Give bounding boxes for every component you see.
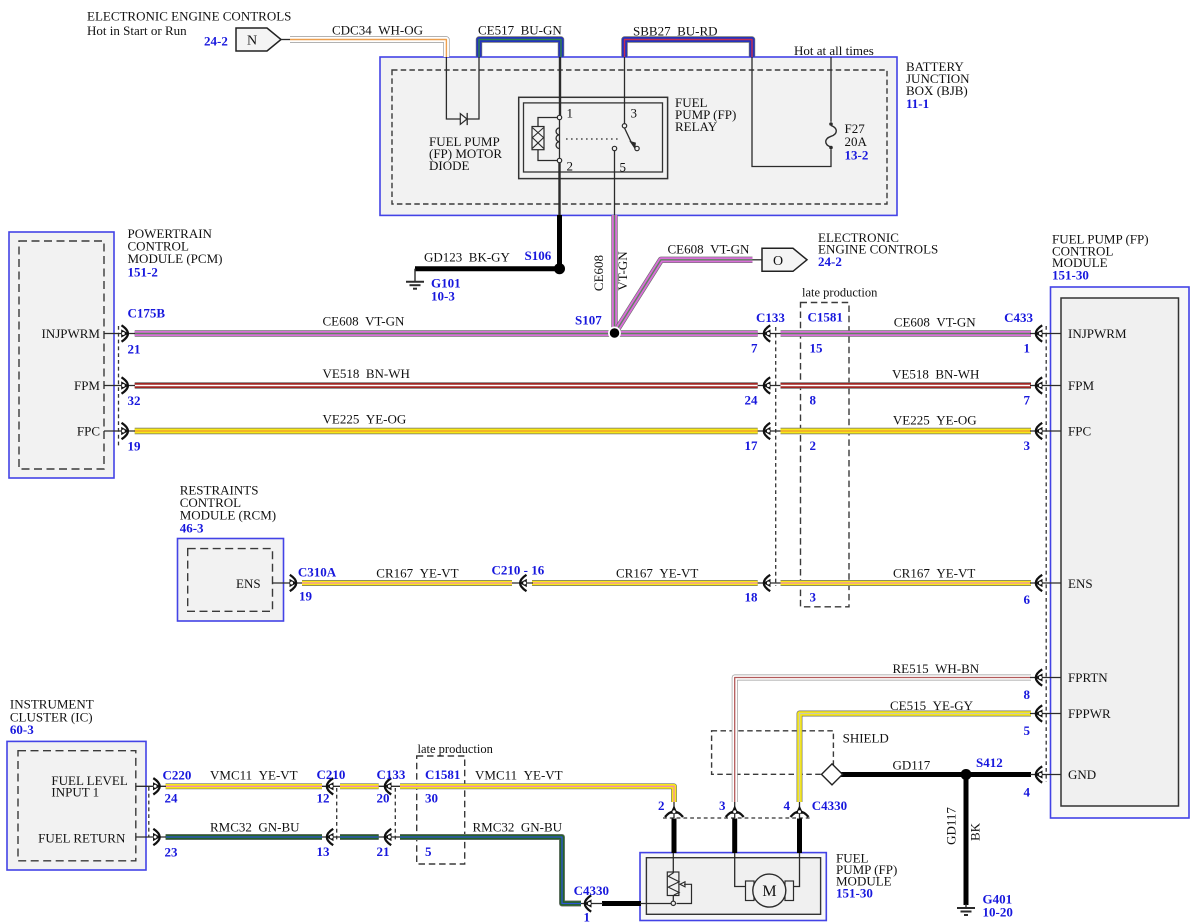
svg-text:O: O [773, 254, 783, 269]
C4330 pin 2 stub [673, 802, 675, 818]
fuel pump control module outline [1051, 287, 1190, 818]
fuse F27 element [826, 122, 837, 149]
IC inner dashed border [18, 751, 136, 861]
C133 stub VE518 [758, 385, 781, 387]
svg-text:CE608 VT-GN: CE608 VT-GN [323, 314, 405, 329]
svg-text:FPC: FPC [77, 424, 100, 439]
instrument cluster (IC) outline [7, 741, 146, 870]
sender bottom lead to terminal [672, 896, 674, 902]
C210 lower stub VMC11 [322, 785, 340, 787]
C4330 pin 3 arrow [726, 805, 744, 817]
wire relay pin 2 down to BJB bottom [558, 163, 560, 215]
svg-text:19: 19 [299, 589, 313, 604]
svg-text:24-2: 24-2 [818, 254, 842, 269]
svg-text:N: N [247, 34, 257, 49]
svg-text:RMC32 GN-BU: RMC32 GN-BU [210, 820, 300, 835]
svg-text:5: 5 [425, 844, 432, 859]
svg-text:C4330: C4330 [812, 798, 847, 813]
wire GD117 BK from splice S412 to ground G401 [964, 775, 969, 906]
wire into sender terminal [640, 903, 671, 905]
svg-text:DIODE: DIODE [429, 158, 469, 173]
C433 pin 6 arrow [1035, 575, 1043, 591]
svg-text:INJPWRM: INJPWRM [41, 326, 100, 341]
C433 stub FPM [1030, 385, 1061, 387]
svg-text:VT-GN: VT-GN [615, 251, 630, 291]
connector C220 dashed line [148, 787, 150, 837]
RCM inner dashed border [188, 549, 273, 612]
svg-text:C310A: C310A [298, 565, 337, 580]
svg-text:1: 1 [1024, 341, 1031, 356]
battery junction box (BJB) outline [380, 57, 897, 215]
C433 stub FPC [1030, 430, 1061, 432]
late production connector C1581 dashed box (lower) [417, 756, 465, 864]
C133 pin 20 arrow [384, 778, 392, 794]
C4330 pin 3 stub [734, 802, 736, 818]
svg-text:3: 3 [719, 798, 726, 813]
motor lead from C4330 pin 3 [735, 853, 746, 887]
IC pin 24 arrow [153, 778, 161, 794]
svg-text:13-2: 13-2 [845, 148, 869, 163]
svg-text:46-3: 46-3 [180, 521, 204, 536]
wire CDC34 into diode anode [446, 57, 460, 119]
wire CR167 YE-VT from RCM to C210 [302, 580, 512, 586]
splice S107 [609, 327, 620, 338]
svg-text:ELECTRONIC ENGINE CONTROLS: ELECTRONIC ENGINE CONTROLS [87, 9, 291, 24]
connector C133 dashed line (lower) [394, 788, 396, 840]
svg-text:VE518 BN-WH: VE518 BN-WH [892, 367, 979, 382]
wire C4330 pin 4 into fuel pump module [797, 819, 802, 854]
svg-text:30: 30 [425, 791, 438, 806]
svg-text:Hot at all times: Hot at all times [794, 43, 874, 58]
fuel level sender (variable resistor) [667, 872, 679, 896]
C433 stub ENS [1030, 582, 1061, 584]
electronic engine controls connector N [236, 28, 281, 51]
svg-text:Hot in Start or Run: Hot in Start or Run [87, 23, 187, 38]
PCM pin 19 arrow [121, 423, 129, 439]
C210-16 stub [512, 582, 533, 584]
wire fuse feed from hot at all times [830, 57, 832, 122]
wire CE515 YE-GY from fuel pump module to FPCM [800, 714, 1032, 803]
electronic engine controls connector O [762, 248, 807, 271]
wire CE608 VT-GN from splice S107 to EEC connector [615, 260, 753, 334]
wire GD117 BK from shield to splice S412 and FPCM GND [841, 772, 1031, 777]
splice S412 [961, 769, 972, 780]
svg-text:FPRTN: FPRTN [1068, 670, 1108, 685]
svg-text:24: 24 [165, 791, 179, 806]
C433 pin 8 arrow [1035, 669, 1043, 685]
RCM pin 19 arrow [290, 575, 298, 591]
C433 stub FPPWR [1030, 713, 1061, 715]
BJB inner dashed border [392, 70, 887, 204]
svg-text:M: M [762, 883, 776, 900]
svg-text:2: 2 [658, 798, 665, 813]
svg-text:CR167 YE-VT: CR167 YE-VT [893, 566, 975, 581]
svg-text:CE517 BU-GN: CE517 BU-GN [478, 23, 562, 38]
relay switch pin 5 contact [612, 146, 616, 150]
svg-text:C210 - 16: C210 - 16 [492, 563, 545, 578]
RCM ENS pin stub [273, 582, 303, 584]
C133 stub CE608 [758, 333, 781, 335]
connector C210 dashed line (lower) [336, 788, 338, 840]
svg-text:17: 17 [745, 438, 759, 453]
wire RMC32 GN-BU from IC to C210 [166, 834, 322, 840]
connector C4330 dashed line [663, 817, 810, 819]
late production connector C1581 dashed box (upper) [801, 303, 850, 607]
svg-text:VMC11 YE-VT: VMC11 YE-VT [475, 768, 563, 783]
wire CE517 BU-GN [479, 40, 561, 58]
wire SBB27 BU-RD [625, 40, 753, 58]
C433 stub FPRTN [1030, 677, 1061, 679]
sender terminal circle [671, 901, 675, 905]
C133 lower stub RMC32 [379, 836, 400, 838]
svg-text:151-2: 151-2 [128, 265, 158, 280]
svg-text:CE608: CE608 [591, 255, 606, 291]
wire VE225 YE-OG from C133 to C433 [781, 428, 1032, 434]
C433 stub GND [1030, 774, 1061, 776]
relay coil feed from pin 1 to resistor branch [538, 118, 558, 127]
relay actuation dotted line [566, 138, 619, 140]
connector C175B dashed line [118, 326, 120, 446]
svg-text:C1581: C1581 [808, 310, 843, 325]
connector C433 dashed line [1045, 326, 1047, 782]
svg-text:BK: BK [968, 822, 983, 841]
svg-text:C175B: C175B [128, 306, 166, 321]
svg-text:5: 5 [620, 160, 627, 175]
C4330 pin 4 stub [799, 802, 801, 818]
svg-text:CE608 VT-GN: CE608 VT-GN [894, 315, 976, 330]
svg-text:5: 5 [1024, 723, 1031, 738]
svg-text:21: 21 [128, 342, 141, 357]
C210-16 arrow [519, 575, 527, 591]
svg-text:32: 32 [128, 393, 141, 408]
C433 pin 4 arrow [1035, 766, 1043, 782]
wire C4330 pin 3 into fuel pump module [732, 819, 737, 854]
svg-text:12: 12 [317, 791, 330, 806]
splice S106 [554, 263, 565, 274]
svg-text:CR167 YE-VT: CR167 YE-VT [616, 566, 698, 581]
svg-text:18: 18 [745, 590, 759, 605]
wire VE518 BN-WH from C133 to C433 [781, 382, 1032, 388]
relay coil [556, 115, 562, 162]
PCM FPM pin stub [104, 385, 135, 387]
fuel pump relay box inner border [524, 103, 663, 172]
wire CR167 YE-VT from C133 to C433 [781, 580, 1032, 586]
svg-text:10-20: 10-20 [983, 905, 1013, 920]
wire diode cathode up to CE517 [467, 57, 479, 119]
wire RE515 WH-BN from fuel pump module to FPCM [735, 678, 1031, 803]
C210 pin 13 arrow [326, 829, 334, 845]
svg-text:C133: C133 [756, 310, 785, 325]
svg-text:ENS: ENS [236, 576, 261, 591]
svg-text:RMC32 GN-BU: RMC32 GN-BU [473, 820, 563, 835]
relay coil suppression resistor [532, 127, 544, 150]
PCM pin 32 arrow [121, 377, 129, 393]
wire SBB27 down to relay pin 3 [624, 57, 626, 124]
svg-text:S412: S412 [976, 755, 1003, 770]
svg-text:6: 6 [1024, 592, 1031, 607]
svg-text:13: 13 [317, 844, 331, 859]
svg-text:15: 15 [810, 341, 824, 356]
svg-text:C133: C133 [377, 767, 406, 782]
fuel pump module inner body [646, 858, 820, 915]
IC pin 23 arrow [153, 829, 161, 845]
wire relay pin 5 down inside BJB [614, 151, 616, 215]
C4330 pin 4 arrow [791, 805, 809, 817]
relay switch pin 3 contact [622, 124, 626, 128]
C133 pin 18 arrow [763, 575, 771, 591]
shield dashed box [712, 731, 834, 775]
wire VE518 BN-WH from PCM to C133 [135, 382, 758, 388]
svg-text:CE515 YE-GY: CE515 YE-GY [890, 698, 974, 713]
svg-text:S106: S106 [525, 248, 552, 263]
C433 pin 1 arrow [1035, 325, 1043, 341]
svg-text:11-1: 11-1 [906, 96, 929, 111]
wire RMC32 GN-BU from C210 to C133 [340, 834, 379, 840]
wire relay pin 1 from box top [559, 57, 561, 115]
svg-text:3: 3 [1024, 438, 1031, 453]
wire fuse output to SBB27 leg [752, 57, 831, 167]
svg-text:8: 8 [1024, 687, 1031, 702]
svg-text:3: 3 [631, 106, 638, 121]
svg-text:SHIELD: SHIELD [843, 731, 889, 746]
svg-text:FPC: FPC [1068, 424, 1091, 439]
svg-text:C433: C433 [1004, 310, 1033, 325]
IC fuel return pin stub [136, 836, 166, 838]
wire relay pin 2 to splice S106 [557, 215, 562, 269]
svg-text:20: 20 [377, 791, 390, 806]
svg-text:3: 3 [810, 590, 817, 605]
svg-text:VE225 YE-OG: VE225 YE-OG [893, 413, 977, 428]
svg-text:4: 4 [784, 798, 791, 813]
svg-text:GD117: GD117 [893, 758, 931, 773]
svg-text:VE518 BN-WH: VE518 BN-WH [323, 366, 410, 381]
wire CE608 VT-GN from PCM to C133 [135, 330, 758, 336]
C433 pin 7 arrow [1035, 377, 1043, 393]
connector C133 dashed line (upper) [775, 327, 777, 586]
motor lead from C4330 pin 4 [794, 853, 800, 887]
wire RMC32 GN-BU from C133 down to C4330 pin 1 [400, 837, 581, 904]
wire C4330 pin 1 into fuel pump module [602, 901, 641, 906]
relay switch arm [625, 128, 640, 151]
svg-text:8: 8 [810, 393, 817, 408]
C433 pin 5 arrow [1035, 705, 1043, 721]
wire VE225 YE-OG from PCM to C133 [135, 428, 758, 434]
C133 pin 17 arrow [763, 423, 771, 439]
svg-text:151-30: 151-30 [836, 886, 873, 901]
ground G401 [957, 904, 975, 915]
EEC O connector tail [753, 259, 764, 261]
svg-text:2: 2 [567, 159, 574, 174]
svg-text:FPM: FPM [1068, 378, 1094, 393]
svg-text:2: 2 [810, 438, 817, 453]
powertrain control module (PCM) outline [9, 232, 114, 478]
svg-text:CE608 VT-GN: CE608 VT-GN [668, 242, 750, 257]
svg-text:60-3: 60-3 [10, 722, 34, 737]
fuel pump motor brushes [746, 881, 794, 901]
svg-text:late production: late production [418, 742, 494, 756]
PCM pin 21 arrow [121, 325, 129, 341]
svg-text:INPUT 1: INPUT 1 [51, 785, 99, 800]
fuel pump module outline [640, 853, 826, 921]
svg-text:FPPWR: FPPWR [1068, 706, 1111, 721]
shield drain diamond connector [822, 764, 843, 785]
svg-text:INJPWRM: INJPWRM [1068, 326, 1127, 341]
svg-text:C1581: C1581 [425, 767, 460, 782]
svg-text:RELAY: RELAY [675, 119, 718, 134]
wire C4330 pin 2 into fuel pump module [672, 819, 677, 854]
ground G101 [406, 269, 424, 289]
svg-text:GD117: GD117 [944, 807, 959, 845]
svg-text:FPM: FPM [74, 378, 100, 393]
PCM INJPWRM pin stub [104, 333, 135, 335]
PCM FPC pin stub [104, 430, 135, 432]
C133 pin 21 arrow [384, 829, 392, 845]
svg-text:24: 24 [745, 393, 759, 408]
C133 pin 7 arrow [763, 325, 771, 341]
C433 pin 3 arrow [1035, 423, 1043, 439]
svg-text:4: 4 [1024, 785, 1031, 800]
svg-text:23: 23 [165, 845, 179, 860]
svg-text:1: 1 [567, 106, 574, 121]
svg-text:late production: late production [802, 286, 878, 300]
C4330 pin 1 arrow [584, 895, 592, 911]
svg-text:SBB27 BU-RD: SBB27 BU-RD [633, 24, 718, 39]
svg-text:CDC34 WH-OG: CDC34 WH-OG [332, 23, 423, 38]
N connector tail [281, 39, 290, 41]
svg-text:10-3: 10-3 [431, 289, 455, 304]
svg-text:24-2: 24-2 [204, 34, 228, 49]
C4330 pin 2 arrow [665, 805, 683, 817]
fuel level sender wiper arm [677, 882, 692, 904]
svg-text:RE515 WH-BN: RE515 WH-BN [893, 661, 980, 676]
wire CDC34 WH-OG [290, 40, 446, 58]
C210 pin 12 arrow [326, 778, 334, 794]
C133 pin 24 arrow [763, 377, 771, 393]
svg-text:S107: S107 [575, 313, 602, 328]
fuel pump control module inner body [1061, 298, 1179, 806]
wire VMC11 YE-VT from C210 to C133 [340, 783, 379, 789]
svg-text:CR167 YE-VT: CR167 YE-VT [376, 566, 458, 581]
C133 stub CR167 [758, 582, 781, 584]
relay resistor branch to pin 2 [538, 150, 558, 161]
fuel pump relay box outer border [519, 97, 668, 178]
C133 lower stub VMC11 [379, 785, 400, 787]
fuel pump motor diode [460, 113, 467, 125]
svg-text:C220: C220 [163, 768, 192, 783]
wire GD123 BK-GY to ground G101 [415, 266, 560, 271]
wire CE608 VT-GN from C133 to C433 [781, 330, 1032, 336]
fuel level sender feed inside module [672, 853, 674, 872]
C433 stub INJPWRM [1030, 333, 1061, 335]
C133 stub VE225 [758, 430, 781, 432]
restraints control module (RCM) outline [178, 539, 284, 622]
svg-text:GD123 BK-GY: GD123 BK-GY [424, 250, 511, 265]
IC fuel level pin stub [136, 785, 166, 787]
svg-text:19: 19 [128, 439, 142, 454]
svg-text:7: 7 [1024, 393, 1031, 408]
svg-text:C4330: C4330 [574, 883, 609, 898]
wire VMC11 YE-VT from IC to C210 [166, 783, 322, 789]
svg-text:C210: C210 [317, 767, 346, 782]
svg-text:GND: GND [1068, 767, 1096, 782]
svg-text:7: 7 [751, 341, 758, 356]
svg-text:VE225 YE-OG: VE225 YE-OG [323, 412, 407, 427]
wire VMC11 YE-VT from C133 to fuel pump module [400, 786, 674, 802]
C210 lower stub RMC32 [322, 836, 340, 838]
svg-text:VMC11 YE-VT: VMC11 YE-VT [210, 768, 298, 783]
svg-text:21: 21 [377, 844, 390, 859]
wire CR167 YE-VT from C210 to C133 [532, 580, 758, 586]
svg-text:151-30: 151-30 [1052, 268, 1089, 283]
wire CE608 VT-GN from relay pin 5 to splice S107 [611, 215, 617, 334]
C4330 pin 1 stub [581, 903, 603, 905]
fuel pump motor M1 [753, 874, 786, 907]
PCM inner dashed border [19, 241, 104, 469]
svg-text:ENS: ENS [1068, 576, 1093, 591]
svg-text:1: 1 [584, 910, 591, 924]
svg-text:FUEL RETURN: FUEL RETURN [38, 831, 126, 846]
